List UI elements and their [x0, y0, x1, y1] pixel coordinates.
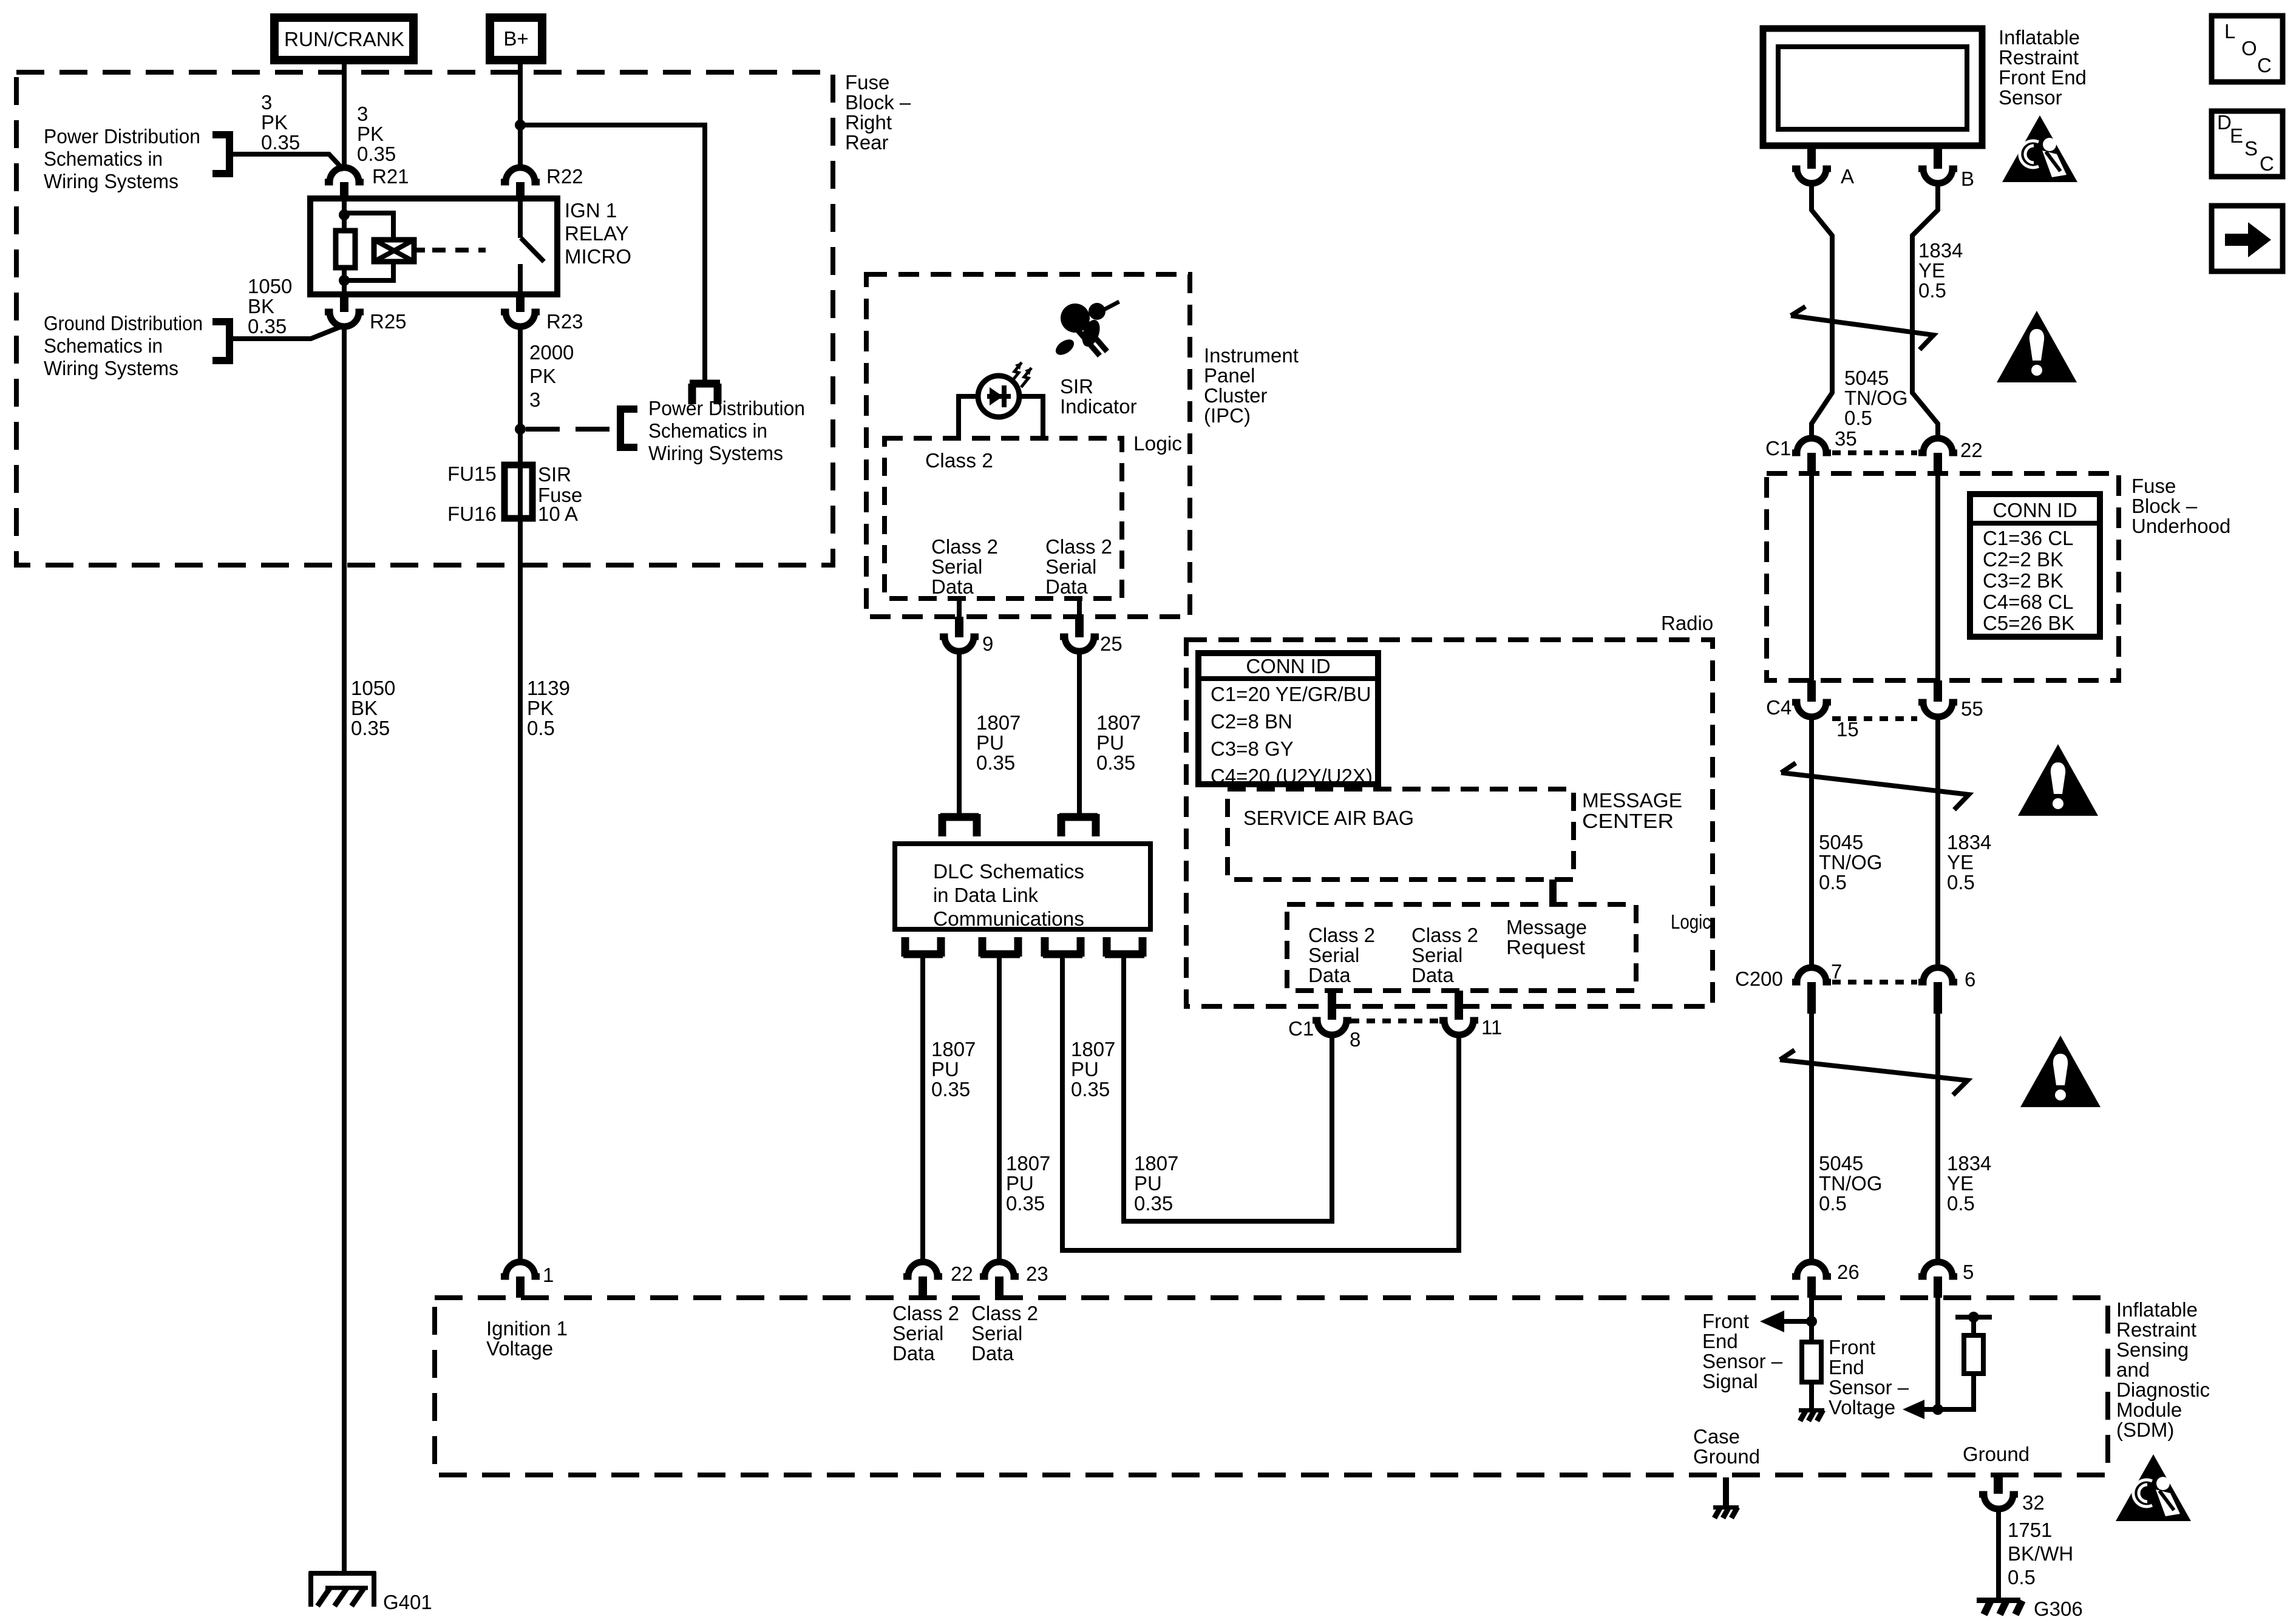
svg-text:SERVICE AIR BAG: SERVICE AIR BAG	[1243, 807, 1414, 829]
svg-text:RUN/CRANK: RUN/CRANK	[284, 28, 404, 50]
svg-text:Serial: Serial	[892, 1322, 943, 1344]
svg-text:1139: 1139	[527, 677, 570, 699]
svg-text:Block –: Block –	[845, 91, 911, 114]
svg-text:C5=26 BK: C5=26 BK	[1983, 612, 2074, 634]
svg-text:BK/WH: BK/WH	[2008, 1542, 2073, 1565]
svg-text:PU: PU	[1096, 731, 1124, 754]
svg-text:1807: 1807	[931, 1038, 976, 1060]
svg-text:Power Distribution: Power Distribution	[44, 125, 200, 147]
svg-text:0.35: 0.35	[261, 131, 300, 154]
svg-text:Rear: Rear	[845, 131, 889, 154]
svg-text:3: 3	[261, 91, 272, 114]
svg-text:PU: PU	[931, 1058, 959, 1080]
svg-text:Class 2: Class 2	[892, 1302, 959, 1324]
svg-text:SIR: SIR	[1060, 375, 1093, 398]
svg-text:Sensor –: Sensor –	[1702, 1350, 1783, 1372]
svg-text:Case: Case	[1693, 1425, 1740, 1448]
svg-text:C1: C1	[1288, 1017, 1314, 1040]
svg-text:22: 22	[951, 1263, 973, 1285]
svg-text:0.35: 0.35	[1071, 1078, 1110, 1100]
svg-text:Ignition 1: Ignition 1	[486, 1317, 568, 1340]
svg-text:Fuse: Fuse	[845, 71, 889, 93]
svg-text:MICRO: MICRO	[565, 245, 631, 268]
svg-text:PK: PK	[357, 123, 384, 145]
svg-text:1807: 1807	[1096, 711, 1141, 734]
svg-text:C2=2 BK: C2=2 BK	[1983, 548, 2063, 571]
svg-text:Sensing: Sensing	[2116, 1338, 2189, 1361]
svg-text:15: 15	[1836, 718, 1859, 741]
svg-text:25: 25	[1100, 632, 1123, 655]
svg-text:PU: PU	[1071, 1058, 1099, 1080]
svg-text:Restraint: Restraint	[1999, 46, 2079, 69]
svg-text:FU15: FU15	[447, 463, 497, 485]
svg-text:Voltage: Voltage	[1829, 1396, 1895, 1419]
svg-text:5045: 5045	[1819, 1152, 1863, 1175]
svg-text:G401: G401	[383, 1591, 432, 1613]
svg-text:DLC Schematics: DLC Schematics	[933, 860, 1084, 883]
svg-text:Schematics in: Schematics in	[648, 419, 767, 442]
svg-text:1834: 1834	[1918, 239, 1963, 262]
svg-text:Schematics in: Schematics in	[44, 147, 163, 170]
svg-text:C4: C4	[1766, 696, 1792, 719]
svg-text:E: E	[2230, 124, 2243, 147]
svg-text:Data: Data	[1045, 575, 1088, 598]
svg-text:Power Distribution: Power Distribution	[648, 397, 805, 419]
svg-text:22: 22	[1960, 439, 1983, 461]
svg-text:1807: 1807	[1134, 1152, 1178, 1175]
svg-text:Class 2: Class 2	[1045, 535, 1112, 558]
svg-text:0.5: 0.5	[527, 717, 555, 739]
svg-text:2000: 2000	[529, 341, 574, 364]
svg-text:PU: PU	[1006, 1172, 1034, 1195]
svg-text:PK: PK	[527, 697, 554, 719]
svg-text:CONN ID: CONN ID	[1992, 499, 2077, 521]
svg-text:0.35: 0.35	[357, 143, 396, 165]
svg-text:Serial: Serial	[971, 1322, 1022, 1344]
svg-text:1050: 1050	[248, 275, 292, 297]
svg-text:in Data Link: in Data Link	[933, 884, 1038, 906]
svg-text:Class 2: Class 2	[1308, 924, 1375, 946]
svg-text:9: 9	[982, 632, 993, 655]
svg-text:C200: C200	[1735, 968, 1783, 990]
svg-text:1751: 1751	[2008, 1519, 2052, 1541]
svg-text:C3=2 BK: C3=2 BK	[1983, 569, 2063, 592]
svg-text:5: 5	[1963, 1261, 1974, 1283]
svg-text:BK: BK	[351, 697, 378, 719]
svg-text:CENTER: CENTER	[1582, 810, 1674, 832]
svg-text:0.35: 0.35	[976, 751, 1015, 774]
svg-text:PK: PK	[261, 111, 288, 134]
svg-text:1834: 1834	[1947, 1152, 1991, 1175]
svg-text:Serial: Serial	[931, 555, 982, 578]
svg-text:35: 35	[1835, 427, 1857, 450]
svg-text:Data: Data	[1308, 964, 1351, 986]
svg-text:5045: 5045	[1844, 367, 1889, 389]
svg-text:1834: 1834	[1947, 831, 1991, 853]
svg-text:0.35: 0.35	[351, 717, 390, 739]
svg-text:YE: YE	[1947, 851, 1974, 873]
svg-text:Right: Right	[845, 111, 892, 134]
svg-text:TN/OG: TN/OG	[1819, 851, 1883, 873]
svg-text:Front: Front	[1829, 1336, 1875, 1358]
svg-text:0.35: 0.35	[1096, 751, 1135, 774]
svg-text:0.5: 0.5	[1918, 279, 1946, 302]
svg-text:Indicator: Indicator	[1060, 395, 1137, 418]
svg-text:C1=36 CL: C1=36 CL	[1983, 527, 2074, 549]
svg-text:8: 8	[1350, 1028, 1360, 1051]
svg-text:R21: R21	[372, 165, 409, 188]
svg-text:0.5: 0.5	[1947, 1192, 1975, 1215]
svg-text:Instrument: Instrument	[1204, 344, 1299, 367]
svg-text:CONN ID: CONN ID	[1246, 655, 1330, 677]
svg-text:Front: Front	[1702, 1310, 1749, 1332]
svg-text:Message: Message	[1506, 916, 1587, 938]
svg-text:0.5: 0.5	[1844, 407, 1872, 429]
svg-text:Sensor: Sensor	[1999, 86, 2062, 109]
svg-text:Data: Data	[892, 1342, 935, 1364]
svg-text:Data: Data	[931, 575, 974, 598]
svg-text:B: B	[1961, 168, 1974, 190]
svg-text:Sensor –: Sensor –	[1829, 1376, 1909, 1398]
svg-text:C4=20 (U2Y/U2X): C4=20 (U2Y/U2X)	[1211, 765, 1373, 787]
svg-text:0.5: 0.5	[1819, 871, 1847, 893]
svg-text:26: 26	[1837, 1261, 1860, 1283]
svg-text:0.35: 0.35	[1006, 1192, 1045, 1215]
svg-text:3: 3	[529, 388, 540, 411]
svg-text:Data: Data	[1411, 964, 1454, 986]
svg-text:10 A: 10 A	[538, 503, 578, 525]
svg-text:Data: Data	[971, 1342, 1014, 1364]
svg-text:5045: 5045	[1819, 831, 1863, 853]
svg-text:Ground: Ground	[1963, 1443, 2029, 1465]
svg-text:0.35: 0.35	[248, 315, 287, 337]
svg-text:Ground Distribution: Ground Distribution	[44, 312, 203, 334]
svg-text:Communications: Communications	[933, 907, 1084, 930]
svg-text:G306: G306	[2034, 1598, 2083, 1617]
svg-text:O: O	[2241, 37, 2257, 59]
svg-text:1807: 1807	[976, 711, 1021, 734]
svg-text:3: 3	[357, 103, 368, 125]
svg-text:7: 7	[1831, 960, 1842, 983]
svg-text:Fuse: Fuse	[2131, 475, 2176, 497]
svg-text:PK: PK	[529, 365, 556, 387]
svg-text:C1=20 YE/GR/BU: C1=20 YE/GR/BU	[1211, 683, 1371, 705]
svg-text:1: 1	[543, 1264, 554, 1286]
svg-text:Front End: Front End	[1999, 66, 2087, 89]
svg-text:Diagnostic: Diagnostic	[2116, 1378, 2210, 1401]
svg-text:C1: C1	[1765, 437, 1791, 459]
svg-text:Request: Request	[1506, 936, 1585, 958]
svg-text:1050: 1050	[351, 677, 395, 699]
svg-text:Class 2: Class 2	[925, 449, 993, 472]
svg-text:Radio: Radio	[1661, 612, 1713, 634]
svg-text:0.5: 0.5	[1819, 1192, 1847, 1215]
svg-text:Serial: Serial	[1308, 944, 1359, 966]
svg-text:6: 6	[1965, 968, 1975, 991]
svg-text:Underhood: Underhood	[2131, 515, 2230, 537]
svg-text:Voltage: Voltage	[486, 1337, 553, 1360]
svg-text:C3=8 GY: C3=8 GY	[1211, 737, 1294, 760]
svg-text:End: End	[1702, 1330, 1738, 1352]
svg-text:C2=8 BN: C2=8 BN	[1211, 710, 1292, 733]
svg-text:Serial: Serial	[1411, 944, 1462, 966]
svg-text:R23: R23	[546, 310, 583, 333]
svg-text:YE: YE	[1918, 259, 1945, 282]
svg-text:1807: 1807	[1006, 1152, 1050, 1175]
svg-text:Class 2: Class 2	[1411, 924, 1478, 946]
svg-text:PU: PU	[976, 731, 1004, 754]
svg-text:B+: B+	[503, 27, 528, 50]
svg-text:MESSAGE: MESSAGE	[1582, 789, 1682, 812]
svg-text:Wiring Systems: Wiring Systems	[44, 170, 178, 192]
svg-text:C: C	[2257, 54, 2272, 76]
svg-text:32: 32	[2022, 1491, 2045, 1514]
svg-text:Schematics in: Schematics in	[44, 334, 163, 357]
svg-text:Inflatable: Inflatable	[1999, 26, 2080, 49]
svg-text:0.35: 0.35	[1134, 1192, 1173, 1215]
svg-text:0.35: 0.35	[931, 1078, 970, 1100]
svg-text:S: S	[2244, 137, 2258, 160]
svg-text:0.5: 0.5	[2008, 1566, 2036, 1588]
svg-text:Class 2: Class 2	[931, 535, 998, 558]
svg-text:PU: PU	[1134, 1172, 1162, 1195]
svg-text:BK: BK	[248, 295, 274, 317]
svg-text:R22: R22	[546, 165, 583, 188]
svg-text:C: C	[2260, 152, 2274, 175]
svg-text:Class 2: Class 2	[971, 1302, 1038, 1324]
svg-text:23: 23	[1026, 1263, 1048, 1285]
svg-text:Module: Module	[2116, 1398, 2182, 1421]
svg-text:(IPC): (IPC)	[1204, 404, 1251, 427]
svg-text:TN/OG: TN/OG	[1819, 1172, 1883, 1195]
svg-text:Panel: Panel	[1204, 364, 1255, 387]
svg-text:55: 55	[1961, 697, 1983, 720]
svg-text:Inflatable: Inflatable	[2116, 1298, 2198, 1321]
svg-text:Logic: Logic	[1133, 432, 1182, 455]
svg-text:SIR: SIR	[538, 463, 571, 486]
svg-text:RELAY: RELAY	[565, 222, 629, 245]
svg-text:Block –: Block –	[2131, 495, 2198, 517]
svg-text:C4=68 CL: C4=68 CL	[1983, 591, 2074, 613]
svg-text:YE: YE	[1947, 1172, 1974, 1195]
svg-text:11: 11	[1481, 1016, 1502, 1039]
svg-text:FU16: FU16	[447, 503, 497, 525]
svg-text:0.5: 0.5	[1947, 871, 1975, 893]
svg-text:Ground: Ground	[1693, 1445, 1760, 1468]
svg-text:1807: 1807	[1071, 1038, 1115, 1060]
svg-text:Wiring Systems: Wiring Systems	[44, 357, 178, 379]
svg-text:and: and	[2116, 1358, 2150, 1381]
svg-text:End: End	[1829, 1356, 1864, 1378]
svg-text:Logic: Logic	[1671, 910, 1711, 933]
svg-text:Wiring Systems: Wiring Systems	[648, 442, 783, 464]
svg-text:R25: R25	[370, 310, 407, 333]
svg-text:L: L	[2224, 20, 2235, 42]
svg-text:(SDM): (SDM)	[2116, 1419, 2174, 1441]
svg-text:Cluster: Cluster	[1204, 384, 1268, 407]
svg-text:Serial: Serial	[1045, 555, 1096, 578]
svg-text:TN/OG: TN/OG	[1844, 387, 1908, 409]
svg-text:A: A	[1841, 165, 1854, 188]
svg-text:Restraint: Restraint	[2116, 1318, 2196, 1341]
svg-text:IGN 1: IGN 1	[565, 199, 617, 222]
svg-text:Signal: Signal	[1702, 1370, 1758, 1392]
